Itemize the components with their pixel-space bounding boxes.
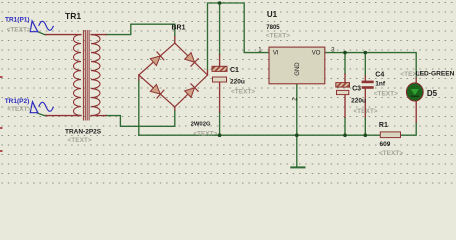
svg-text:<TEXT>: <TEXT> xyxy=(68,137,92,144)
svg-text:TR1(P2): TR1(P2) xyxy=(5,98,30,105)
svg-text:C3: C3 xyxy=(352,85,361,92)
svg-text:<TEXT>: <TEXT> xyxy=(353,108,377,115)
svg-text:C1: C1 xyxy=(230,67,239,74)
svg-text:BR1: BR1 xyxy=(172,25,186,32)
svg-text:<TEXT>: <TEXT> xyxy=(231,89,255,96)
svg-text:<TEXT>: <TEXT> xyxy=(266,33,290,40)
svg-text:<TEXT>: <TEXT> xyxy=(379,150,403,157)
svg-text:U1: U1 xyxy=(267,10,278,19)
svg-text:TR1(P1): TR1(P1) xyxy=(5,16,30,23)
svg-text:TRAN-2P2S: TRAN-2P2S xyxy=(65,128,102,135)
svg-text:609: 609 xyxy=(380,141,391,148)
svg-text:R1: R1 xyxy=(379,122,388,129)
svg-text:2W02G: 2W02G xyxy=(191,121,211,127)
svg-text:7805: 7805 xyxy=(266,25,280,31)
svg-text:D5: D5 xyxy=(427,89,438,98)
svg-text:<TEXT>: <TEXT> xyxy=(7,27,31,34)
svg-text:LED-GREEN: LED-GREEN xyxy=(416,71,455,78)
svg-text:220u: 220u xyxy=(230,79,245,86)
svg-text:TR1: TR1 xyxy=(65,11,81,21)
svg-text:VI: VI xyxy=(273,51,279,57)
svg-text:1nf: 1nf xyxy=(375,81,386,88)
svg-text:220u: 220u xyxy=(351,98,366,105)
svg-text:<TEXT>: <TEXT> xyxy=(374,91,398,98)
svg-text:C4: C4 xyxy=(375,72,384,79)
svg-text:VO: VO xyxy=(312,51,321,57)
svg-text:<TEXT>: <TEXT> xyxy=(7,106,31,113)
svg-text:GND: GND xyxy=(295,62,301,76)
svg-text:<TEXT>: <TEXT> xyxy=(193,131,217,138)
